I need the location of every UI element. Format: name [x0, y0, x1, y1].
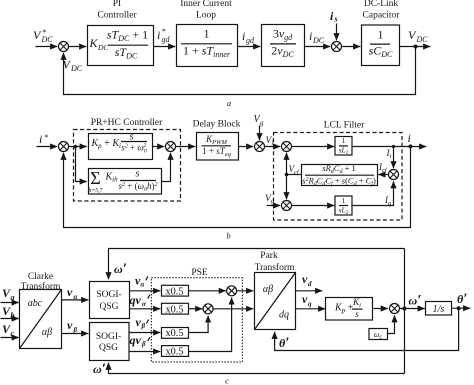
svg-text:DC: DC	[70, 64, 83, 73]
svg-text:a: a	[227, 98, 231, 108]
svg-text:β: β	[141, 340, 146, 348]
svg-text:1 + sTinner: 1 + sTinner	[183, 44, 231, 60]
svg-text:x0.5: x0.5	[165, 304, 183, 315]
svg-text:θ′: θ′	[457, 291, 467, 307]
svg-text:s: s	[136, 169, 140, 180]
svg-text:3vgd: 3vgd	[273, 27, 293, 43]
svg-text:α: α	[74, 293, 78, 301]
svg-text:β: β	[141, 322, 146, 330]
svg-text:b: b	[226, 231, 230, 241]
svg-text:gd: gd	[246, 36, 255, 45]
svg-text:Inner Current: Inner Current	[180, 0, 232, 9]
svg-text:K: K	[89, 36, 99, 50]
svg-text:PSE: PSE	[191, 268, 208, 278]
svg-text:c: c	[225, 376, 229, 385]
svg-text:sCDC: sCDC	[369, 44, 393, 60]
svg-text:a: a	[11, 293, 15, 302]
svg-text:Ii: Ii	[386, 148, 392, 160]
svg-text:s: s	[130, 132, 134, 143]
svg-text:αβ: αβ	[42, 327, 52, 338]
svg-text:v: v	[67, 318, 73, 332]
svg-text:DC: DC	[416, 35, 429, 44]
svg-text:sTDC: sTDC	[115, 45, 138, 61]
svg-text:1: 1	[342, 136, 346, 145]
svg-text:d: d	[308, 280, 312, 288]
svg-text:s: s	[355, 309, 359, 319]
svg-text:*: *	[44, 133, 48, 142]
svg-text:2vDC: 2vDC	[271, 44, 294, 60]
svg-text:Controller: Controller	[97, 11, 137, 21]
svg-text:x0.5: x0.5	[165, 286, 183, 297]
svg-text:ω′: ω′	[93, 361, 106, 377]
svg-text:i: i	[408, 131, 411, 145]
svg-text:c: c	[11, 329, 15, 338]
svg-text:i: i	[242, 29, 245, 43]
svg-text:s: s	[334, 15, 338, 24]
svg-text:β: β	[73, 326, 78, 334]
svg-text:abc: abc	[28, 298, 43, 309]
svg-text:Loop: Loop	[196, 11, 216, 21]
svg-text:ωc: ωc	[374, 330, 383, 341]
svg-text:DC: DC	[41, 35, 54, 44]
svg-text:g: g	[260, 119, 264, 127]
svg-text:Capacitor: Capacitor	[363, 11, 401, 21]
svg-text:gd: gd	[162, 35, 171, 44]
svg-text:Σ: Σ	[90, 168, 100, 188]
svg-text:Ki: Ki	[352, 297, 361, 309]
svg-text:h=5,7: h=5,7	[88, 188, 103, 194]
svg-text:Transform: Transform	[21, 281, 61, 292]
svg-text:QSG: QSG	[99, 302, 118, 312]
svg-text:θ′: θ′	[279, 335, 289, 351]
svg-text:qv: qv	[130, 293, 142, 307]
svg-text:1/s: 1/s	[433, 304, 445, 315]
svg-text:i: i	[330, 9, 334, 23]
svg-text:Kp +: Kp +	[334, 303, 354, 315]
svg-text:SOGI-: SOGI-	[96, 332, 121, 342]
svg-text:KPWM: KPWM	[205, 134, 227, 146]
svg-text:QSG: QSG	[99, 343, 118, 353]
svg-text:i: i	[39, 132, 42, 146]
svg-text:DC: DC	[97, 43, 109, 52]
svg-text:sL2: sL2	[339, 205, 349, 216]
svg-text:Clarke: Clarke	[28, 272, 53, 282]
svg-text:1: 1	[378, 28, 384, 42]
svg-text:i: i	[309, 29, 312, 43]
svg-text:sTDC + 1: sTDC + 1	[107, 28, 148, 44]
svg-text:Vi: Vi	[266, 136, 274, 147]
svg-text:s2 + (ω0h)2: s2 + (ω0h)2	[119, 181, 158, 193]
svg-text:i: i	[157, 28, 160, 42]
svg-text:αβ: αβ	[263, 284, 273, 295]
svg-text:LCL Filter: LCL Filter	[324, 121, 365, 131]
svg-text:s2 + ω02: s2 + ω02	[121, 143, 146, 155]
svg-text:Kih: Kih	[105, 172, 119, 184]
svg-text:DC-Link: DC-Link	[364, 0, 399, 9]
svg-text:Delay Block: Delay Block	[193, 120, 241, 130]
svg-text:PR+HC Controller: PR+HC Controller	[91, 118, 163, 128]
svg-text:α: α	[142, 300, 146, 308]
svg-text:v: v	[67, 285, 73, 299]
svg-text:1 + sTeq: 1 + sTeq	[202, 146, 231, 158]
svg-text:sL1: sL1	[339, 146, 349, 157]
svg-text:x0.5: x0.5	[165, 347, 183, 358]
svg-text:DC: DC	[312, 36, 325, 45]
svg-text:α: α	[141, 281, 145, 289]
svg-text:x0.5: x0.5	[165, 328, 183, 339]
svg-text:qv: qv	[130, 333, 142, 347]
svg-text:Transform: Transform	[255, 262, 295, 273]
svg-text:1: 1	[342, 196, 346, 205]
svg-text:Vg: Vg	[265, 194, 275, 205]
svg-text:Icf: Icf	[378, 162, 388, 174]
svg-text:Kp + Ki: Kp + Ki	[91, 138, 121, 150]
svg-text:dq: dq	[279, 310, 289, 321]
svg-text:1: 1	[204, 27, 210, 41]
svg-text:SOGI-: SOGI-	[96, 290, 121, 300]
svg-text:ω′: ω′	[114, 261, 127, 277]
svg-text:sRdCd + 1: sRdCd + 1	[322, 163, 355, 175]
svg-text:q: q	[308, 300, 312, 308]
svg-text:ω′: ω′	[409, 293, 422, 309]
svg-text:PI: PI	[113, 0, 121, 9]
svg-text:Park: Park	[260, 251, 278, 261]
